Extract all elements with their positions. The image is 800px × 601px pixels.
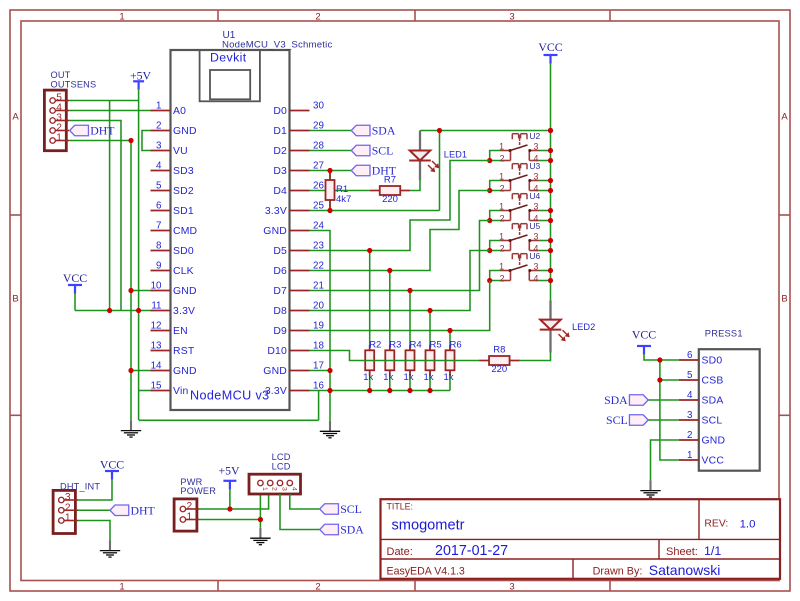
svg-text:OUTSENS: OUTSENS — [51, 79, 97, 89]
svg-text:TITLE:: TITLE: — [387, 502, 413, 512]
svg-text:1: 1 — [156, 101, 161, 112]
svg-text:R8: R8 — [493, 345, 505, 356]
svg-text:2: 2 — [500, 243, 505, 253]
junction dots R6 — [447, 328, 452, 333]
svg-text:3: 3 — [534, 231, 539, 241]
net flag SDA PRESS1 — [604, 393, 648, 407]
IC U1 NodeMCU_V3_Schmetic — [171, 30, 333, 410]
ground PRESS1 — [640, 480, 660, 497]
wire SCL flag to pin3 — [648, 419, 679, 421]
svg-text:4k7: 4k7 — [336, 194, 351, 205]
wire U4 pin3 to VCC — [540, 210, 551, 212]
net flag SCL bottom — [320, 502, 362, 516]
connector PRESS1 — [679, 329, 760, 471]
connector PWR/POWER — [174, 477, 216, 531]
svg-text:SD2: SD2 — [173, 186, 194, 197]
svg-text:2: 2 — [187, 501, 193, 512]
junction dots PRESS1 — [657, 357, 662, 362]
svg-text:12: 12 — [151, 321, 162, 332]
wire PRESS1 pin2 to ground — [651, 440, 679, 480]
wire 3.3V pin25 row — [310, 210, 440, 212]
svg-text:D6: D6 — [273, 266, 287, 277]
net flag DHT left — [70, 124, 116, 138]
svg-text:3: 3 — [687, 410, 693, 421]
pin 29 D1 — [273, 121, 324, 138]
pin 7 CMD — [151, 221, 198, 238]
svg-text:EN: EN — [173, 326, 188, 337]
junction dots U5 — [487, 248, 492, 253]
pin 3 VU — [151, 141, 188, 158]
svg-text:1: 1 — [65, 513, 71, 524]
svg-text:U4: U4 — [529, 191, 540, 201]
wire 3.3V pin16 bus — [310, 390, 451, 392]
svg-text:R3: R3 — [389, 339, 401, 350]
wire U3 feed bracket — [490, 181, 501, 191]
wire DHT_INT pin3 to VCC — [78, 479, 112, 500]
wire OUT pin3 down to VCC row — [69, 121, 121, 311]
svg-text:CSB: CSB — [702, 376, 724, 387]
svg-text:Devkit: Devkit — [210, 50, 247, 64]
wire GND pin14 — [131, 370, 151, 372]
wire U5 feed bracket — [490, 241, 501, 251]
svg-text:D4: D4 — [273, 186, 287, 197]
net flag SCL PRESS1 — [606, 413, 648, 427]
svg-text:2: 2 — [271, 487, 278, 491]
wire U6 pin3 to VCC — [540, 270, 551, 272]
svg-text:6: 6 — [156, 201, 162, 212]
svg-text:SDA: SDA — [340, 523, 364, 537]
junction dots U4 — [487, 218, 492, 223]
pin 10 GND — [151, 281, 197, 298]
wire +5V stem to pin2 row — [229, 489, 231, 509]
switch U4 — [499, 191, 540, 223]
svg-text:Date:: Date: — [387, 546, 413, 558]
pin 8 SD0 — [151, 241, 194, 258]
wire U6 feed bracket — [490, 271, 501, 281]
pin 6 SD1 — [151, 201, 194, 218]
ground GND1 — [121, 420, 141, 437]
power VCC DHT_INT — [100, 458, 124, 480]
wire R5 column — [429, 311, 431, 351]
LED LED2 — [540, 301, 596, 353]
svg-text:GND: GND — [702, 436, 726, 447]
svg-text:GND: GND — [263, 366, 287, 377]
wire pin16 riser to bottom bus — [318, 391, 320, 421]
svg-text:15: 15 — [151, 381, 162, 392]
wire VCC to column — [550, 63, 552, 131]
wire U5 pin4 to VCC — [539, 250, 551, 252]
wire Vin pin15 — [139, 390, 151, 392]
svg-text:SCL: SCL — [340, 502, 362, 516]
svg-text:Drawn By:: Drawn By: — [593, 566, 643, 578]
power VCC PRESS1 — [632, 328, 656, 355]
svg-text:3.3V: 3.3V — [173, 306, 195, 317]
resistor R3 — [383, 339, 401, 383]
ground LCD — [250, 528, 270, 545]
wire LCD pin3 to SDA flag — [280, 494, 320, 530]
wire U4 pin4 to VCC — [539, 220, 551, 222]
pin 22 D6 — [273, 261, 324, 278]
wire DHT_INT pin2 to DHT flag — [78, 509, 110, 511]
connector LCD — [249, 452, 301, 494]
svg-text:R4: R4 — [410, 339, 422, 350]
wire R7 to LED1 cathode — [410, 180, 420, 190]
svg-text:D8: D8 — [273, 306, 287, 317]
svg-text:4: 4 — [534, 273, 539, 283]
svg-text:Vin: Vin — [173, 386, 188, 397]
svg-text:LED2: LED2 — [572, 322, 595, 332]
svg-text:2: 2 — [687, 430, 692, 441]
net flag DHT bottom — [110, 503, 156, 517]
svg-text:1: 1 — [119, 12, 124, 23]
svg-text:LCD: LCD — [272, 462, 291, 472]
svg-text:30: 30 — [313, 101, 324, 112]
wire VCC column PRESS1 — [660, 360, 679, 460]
svg-text:3: 3 — [534, 141, 539, 151]
wire U2 feed bracket — [490, 151, 501, 161]
resistor R5 — [424, 339, 442, 383]
wire R4 column — [409, 291, 411, 351]
svg-text:14: 14 — [151, 361, 162, 372]
wire D7 to U4 — [310, 221, 490, 291]
wire chip GND pin2 jog to VU — [142, 131, 151, 151]
svg-text:SD1: SD1 — [173, 206, 194, 217]
wire OUT pin5 branch down to VCC row — [109, 101, 111, 311]
pin 30 D0 — [273, 101, 324, 118]
wire R2 column — [369, 251, 371, 351]
svg-text:1: 1 — [261, 487, 268, 491]
junction dots R3 — [387, 268, 392, 273]
svg-text:SDA: SDA — [604, 393, 628, 407]
wire R3 column — [389, 271, 391, 351]
pin 19 D9 — [273, 321, 324, 338]
wire VCC row to 3.3V pin11 — [75, 310, 151, 312]
resistor R8 — [479, 345, 520, 376]
wire GND pin24 column — [310, 231, 331, 421]
svg-text:VU: VU — [173, 146, 188, 157]
svg-text:POWER: POWER — [180, 486, 216, 496]
wire LCD pin1 down to ground — [259, 494, 261, 528]
junction dot LCD pin1 — [258, 517, 263, 522]
pin 18 D10 — [267, 341, 324, 358]
junction dots R2 — [367, 248, 372, 253]
net flag SDA bottom — [320, 523, 365, 537]
svg-text:5: 5 — [156, 181, 162, 192]
svg-text:2: 2 — [315, 12, 320, 23]
wire VCC stem — [74, 293, 76, 311]
svg-text:1.0: 1.0 — [740, 518, 756, 530]
svg-text:PRESS1: PRESS1 — [705, 329, 743, 339]
wire D9 to U6 — [310, 281, 490, 331]
svg-text:R2: R2 — [369, 339, 381, 350]
power VCC left — [63, 271, 87, 294]
svg-text:2: 2 — [315, 582, 320, 593]
junction dots left — [128, 138, 133, 143]
svg-text:3: 3 — [534, 171, 539, 181]
svg-text:D3: D3 — [273, 166, 287, 177]
svg-text:CLK: CLK — [173, 266, 194, 277]
svg-text:1: 1 — [187, 512, 193, 523]
LED LED1 — [409, 131, 467, 181]
svg-text:GND: GND — [263, 226, 287, 237]
svg-text:+5V: +5V — [218, 464, 240, 478]
svg-text:SCL: SCL — [702, 416, 723, 427]
switch U6 — [499, 251, 540, 283]
svg-text:1/1: 1/1 — [704, 544, 721, 558]
svg-text:1: 1 — [119, 582, 124, 593]
wire U2 pin4 to VCC — [539, 160, 551, 162]
wire D2 to SCL flag — [310, 150, 352, 152]
switch U5 — [499, 221, 540, 253]
wire 3.3V riser to LED1 junction — [439, 131, 441, 211]
wire R8 to LED2 cathode — [520, 353, 551, 361]
wire OUT pin5 to +5V rail — [69, 100, 139, 102]
switch U3 — [499, 161, 540, 193]
svg-text:NodeMCU v3: NodeMCU v3 — [190, 389, 270, 403]
wire PRESS1 pin5 — [660, 379, 679, 381]
junction dot LED1 — [437, 128, 442, 133]
power +5V PWR — [218, 464, 240, 490]
svg-text:VCC: VCC — [63, 271, 87, 285]
pin 24 GND — [263, 221, 324, 238]
pin 11 3.3V — [151, 301, 196, 318]
svg-text:1k: 1k — [424, 372, 434, 383]
pin 2 GND — [151, 121, 197, 138]
pin 9 CLK — [151, 261, 194, 278]
svg-text:U3: U3 — [529, 161, 540, 171]
svg-text:1k: 1k — [383, 372, 393, 383]
wire U2 pin3 to VCC — [540, 150, 551, 152]
junction dots R5 — [427, 308, 432, 313]
svg-text:GND: GND — [173, 126, 197, 137]
resistor R6 — [444, 339, 462, 383]
pin 26 D4 — [273, 181, 324, 198]
svg-text:2: 2 — [156, 121, 161, 132]
pin 21 D7 — [273, 281, 324, 298]
wire GND pin17 — [310, 370, 331, 372]
svg-text:1k: 1k — [444, 372, 454, 383]
switch U2 — [499, 131, 540, 163]
svg-text:EasyEDA V4.1.3: EasyEDA V4.1.3 — [387, 566, 465, 578]
power VCC top — [538, 40, 562, 64]
svg-text:3: 3 — [281, 487, 288, 491]
svg-text:2: 2 — [500, 153, 505, 163]
svg-text:CMD: CMD — [173, 226, 197, 237]
svg-text:220: 220 — [491, 364, 507, 375]
svg-text:8: 8 — [156, 241, 162, 252]
svg-text:220: 220 — [382, 194, 398, 205]
svg-text:D9: D9 — [273, 326, 287, 337]
svg-text:13: 13 — [151, 341, 162, 352]
wire D8 to U5 — [310, 251, 490, 311]
svg-text:D0: D0 — [273, 106, 287, 117]
net flag SDA — [351, 124, 396, 138]
pin 15 Vin — [151, 381, 189, 398]
svg-text:A: A — [12, 112, 19, 123]
svg-text:B: B — [12, 294, 18, 305]
wire U5 pin3 to VCC — [540, 240, 551, 242]
wire D1 to SDA flag — [310, 130, 352, 132]
wire VCC column switches — [550, 131, 552, 301]
svg-text:U6: U6 — [529, 251, 540, 261]
pin 27 D3 — [273, 161, 324, 178]
svg-text:D10: D10 — [267, 346, 287, 357]
wire GND column down — [130, 141, 132, 421]
pin 14 GND — [151, 361, 197, 378]
svg-text:A: A — [781, 112, 788, 123]
wire LED1 anode — [420, 130, 440, 132]
svg-text:SD3: SD3 — [173, 166, 194, 177]
wire OUT pin1 to GND column — [69, 140, 131, 142]
pin 4 SD3 — [151, 161, 194, 178]
svg-text:3: 3 — [534, 261, 539, 271]
svg-text:3: 3 — [156, 141, 162, 152]
junction dots U2 — [487, 158, 492, 163]
wire D3 to DHT flag — [310, 170, 352, 172]
pin 28 D2 — [273, 141, 324, 158]
junction dots U3 — [487, 188, 492, 193]
wire bottom 3.3V return bus — [139, 419, 319, 421]
svg-text:VCC: VCC — [538, 40, 562, 54]
pin 23 D5 — [273, 241, 324, 258]
svg-text:GND: GND — [173, 286, 197, 297]
wire LED1 junction to VCC column — [440, 130, 551, 132]
pin 1 A0 — [151, 101, 187, 118]
svg-text:11: 11 — [151, 301, 161, 312]
junction dots R1 — [327, 168, 332, 173]
wire LCD pin4 to SCL flag — [290, 494, 320, 509]
svg-text:U5: U5 — [529, 221, 540, 231]
svg-text:D2: D2 — [273, 146, 287, 157]
wire VCC PRESS1 to pin6 — [644, 354, 679, 360]
svg-text:Sheet:: Sheet: — [666, 546, 698, 558]
resistor R2 — [363, 339, 381, 383]
svg-text:4: 4 — [156, 161, 162, 172]
svg-text:3.3V: 3.3V — [265, 386, 287, 397]
junction dot +5V — [227, 506, 232, 511]
svg-text:3: 3 — [509, 582, 514, 593]
wire OUT pin4 to A0 — [69, 110, 151, 112]
svg-text:LCD: LCD — [272, 452, 291, 462]
pin 17 GND — [263, 361, 324, 378]
svg-text:6: 6 — [687, 350, 693, 361]
wire U3 pin4 to VCC — [539, 190, 551, 192]
svg-text:R7: R7 — [384, 175, 396, 186]
wire U6 pin4 to VCC — [539, 280, 551, 282]
pin 25 3.3V — [265, 201, 325, 218]
svg-text:3.3V: 3.3V — [265, 206, 287, 217]
wire D10 to R8 row — [310, 351, 480, 361]
svg-text:SDA: SDA — [702, 396, 724, 407]
svg-text:SCL: SCL — [372, 144, 394, 158]
svg-text:LED1: LED1 — [444, 150, 467, 160]
junction dots R4 — [407, 288, 412, 293]
wire SDA flag to pin4 — [648, 399, 679, 401]
svg-text:R6: R6 — [450, 339, 462, 350]
resistor R1 — [326, 171, 352, 211]
svg-text:7: 7 — [156, 221, 161, 232]
svg-text:VCC: VCC — [702, 456, 725, 467]
svg-text:10: 10 — [151, 281, 162, 292]
ground GND2 — [320, 421, 340, 438]
svg-text:1: 1 — [56, 133, 62, 144]
wire D4 row to R7 — [310, 190, 370, 192]
svg-text:SD0: SD0 — [173, 246, 194, 257]
wire PWR pin2 row to LCD pin2 — [199, 494, 269, 509]
connector OUT/OUTSENS — [44, 70, 96, 151]
svg-text:1: 1 — [687, 450, 692, 461]
svg-text:4: 4 — [687, 390, 693, 401]
wire GND pin10 — [131, 290, 151, 292]
net flag DHT right — [351, 164, 397, 178]
svg-text:DHT: DHT — [131, 503, 156, 517]
wire U4 feed bracket — [490, 211, 501, 221]
svg-text:VCC: VCC — [632, 328, 656, 342]
svg-text:NodeMCU_V3_Schmetic: NodeMCU_V3_Schmetic — [222, 40, 332, 51]
svg-text:B: B — [781, 294, 787, 305]
net flag SCL — [351, 144, 393, 158]
wire D5 to U2 — [310, 161, 490, 251]
svg-text:2: 2 — [500, 183, 505, 193]
ground DHT_INT — [100, 540, 120, 557]
connector DHT_INT — [53, 481, 100, 533]
pin 13 RST — [151, 341, 195, 358]
svg-text:2017-01-27: 2017-01-27 — [435, 543, 508, 559]
svg-text:5: 5 — [687, 370, 693, 381]
svg-text:2: 2 — [500, 213, 505, 223]
svg-text:D5: D5 — [273, 246, 287, 257]
svg-text:1k: 1k — [404, 372, 414, 383]
svg-text:SD0: SD0 — [702, 356, 723, 367]
svg-text:SCL: SCL — [606, 413, 628, 427]
wire R1 column — [329, 171, 331, 211]
wire +5V stem down to ground bus — [138, 90, 140, 420]
svg-text:A0: A0 — [173, 106, 186, 117]
resistor R7 — [370, 175, 410, 206]
svg-text:VCC: VCC — [100, 458, 124, 472]
power +5V left — [130, 69, 152, 90]
pin 20 D8 — [273, 301, 324, 318]
svg-text:D7: D7 — [273, 286, 287, 297]
wire DHT_INT pin1 to ground — [78, 521, 110, 541]
svg-text:U2: U2 — [529, 131, 540, 141]
svg-text:2: 2 — [500, 273, 505, 283]
wire R6 column — [449, 331, 451, 351]
wire U3 pin3 to VCC — [540, 180, 551, 182]
svg-text:R5: R5 — [430, 339, 442, 350]
svg-text:REV:: REV: — [704, 519, 728, 530]
svg-text:SDA: SDA — [372, 124, 396, 138]
svg-text:smogometr: smogometr — [392, 518, 465, 534]
svg-text:RST: RST — [173, 346, 195, 357]
svg-text:D1: D1 — [273, 126, 287, 137]
svg-text:3: 3 — [509, 12, 514, 23]
svg-text:3: 3 — [534, 201, 539, 211]
pin 16 3.3V — [265, 381, 325, 398]
resistor R4 — [404, 339, 422, 383]
svg-text:GND: GND — [173, 366, 197, 377]
svg-text:Satanowski: Satanowski — [649, 562, 721, 578]
junction dots U6 — [487, 278, 492, 283]
svg-text:DHT: DHT — [90, 124, 115, 138]
wire D6 to U3 — [310, 191, 490, 271]
svg-text:9: 9 — [156, 261, 161, 272]
svg-text:1k: 1k — [363, 372, 373, 383]
pin 5 SD2 — [151, 181, 194, 198]
pin 12 EN — [151, 321, 188, 338]
svg-text:4: 4 — [290, 487, 297, 491]
wire PWR pin1 row to LCD pin1 — [199, 519, 260, 521]
